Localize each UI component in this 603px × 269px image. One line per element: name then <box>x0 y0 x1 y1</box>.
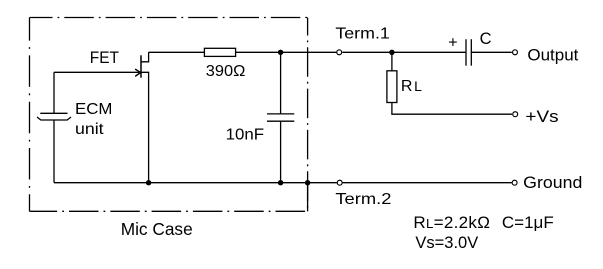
svg-text:10nF: 10nF <box>226 126 265 143</box>
wire: FET source stub down to ground rail <box>141 72 149 182</box>
wire: from top rail junction down to RL <box>391 52 393 71</box>
transistor Q1 FET gate arrowhead <box>136 69 141 76</box>
mic case dashed border right <box>307 18 309 212</box>
wire: ECM bottom lead down to ground wire <box>53 120 55 183</box>
svg-text:+Vs: +Vs <box>525 107 558 126</box>
svg-text:Term.2: Term.2 <box>335 191 391 208</box>
wire: FET drain stub up to top rail <box>141 52 149 62</box>
junction dot at FET source on ground rail <box>146 180 151 185</box>
wire: ground rail from Term.2 circle to Ground terminal <box>343 182 512 184</box>
svg-text:FET: FET <box>90 49 119 67</box>
wire: top rail from resistor to Term.1 circle <box>236 51 337 53</box>
svg-text:+: + <box>448 35 457 52</box>
svg-text:Output: Output <box>527 47 578 65</box>
wire: from C to Output terminal <box>471 51 512 53</box>
junction dot 10nF bottom <box>278 180 283 185</box>
capacitor C right plate <box>470 39 472 65</box>
svg-text:Ground: Ground <box>523 173 582 192</box>
svg-text:Mic Case: Mic Case <box>121 219 193 239</box>
node Ground open circle <box>512 180 517 185</box>
wire: ground rail inside case <box>54 182 337 184</box>
wire: top rail from FET drain to resistor <box>149 51 205 53</box>
wire: case ground stub <box>307 183 309 212</box>
capacitor C left plate <box>465 39 467 65</box>
node Term.1 open circle <box>337 50 342 55</box>
mic case dashed border top <box>30 17 308 19</box>
wire: 10nF top lead from top rail <box>280 52 282 114</box>
svg-text:ECM: ECM <box>75 101 112 118</box>
transistor Q1 FET channel bar <box>140 55 142 77</box>
mic case dashed border left <box>29 18 31 212</box>
svg-text:C=1μF: C=1μF <box>502 213 554 232</box>
svg-text:Term.1: Term.1 <box>335 26 390 43</box>
resistor RL body <box>387 71 397 103</box>
svg-text:390Ω: 390Ω <box>206 63 246 80</box>
svg-text:C: C <box>480 30 492 48</box>
node Output open circle <box>513 50 518 55</box>
junction dot top rail / RL <box>389 50 394 55</box>
wire: from RL down and right to +Vs terminal <box>392 103 512 115</box>
wire: left vertical from gate wire down to ECM top plate <box>53 72 55 113</box>
node +Vs open circle <box>513 112 518 117</box>
capacitor 10nF bottom plate <box>267 120 294 122</box>
capacitor ECM top plate <box>40 112 67 114</box>
junction dot 10nF top <box>278 50 283 55</box>
capacitor ECM bottom bent plate <box>37 117 71 120</box>
junction dot case ground <box>305 180 310 185</box>
capacitor 10nF top plate <box>267 113 294 115</box>
mic case dashed border bottom <box>30 210 308 212</box>
wire: gate wire from ECM to FET <box>54 71 139 73</box>
svg-text:RL: RL <box>401 78 422 95</box>
wire: top rail from Term.1 circle to C capacitor <box>342 51 466 53</box>
node Term.2 open circle <box>337 180 342 185</box>
svg-text:RL=2.2kΩ: RL=2.2kΩ <box>413 213 490 232</box>
svg-text:Vs=3.0V: Vs=3.0V <box>415 234 478 252</box>
resistor 390ohm body <box>204 48 235 56</box>
svg-text:unit: unit <box>75 121 104 138</box>
wire: 10nF bottom lead down to ground rail <box>280 121 282 183</box>
